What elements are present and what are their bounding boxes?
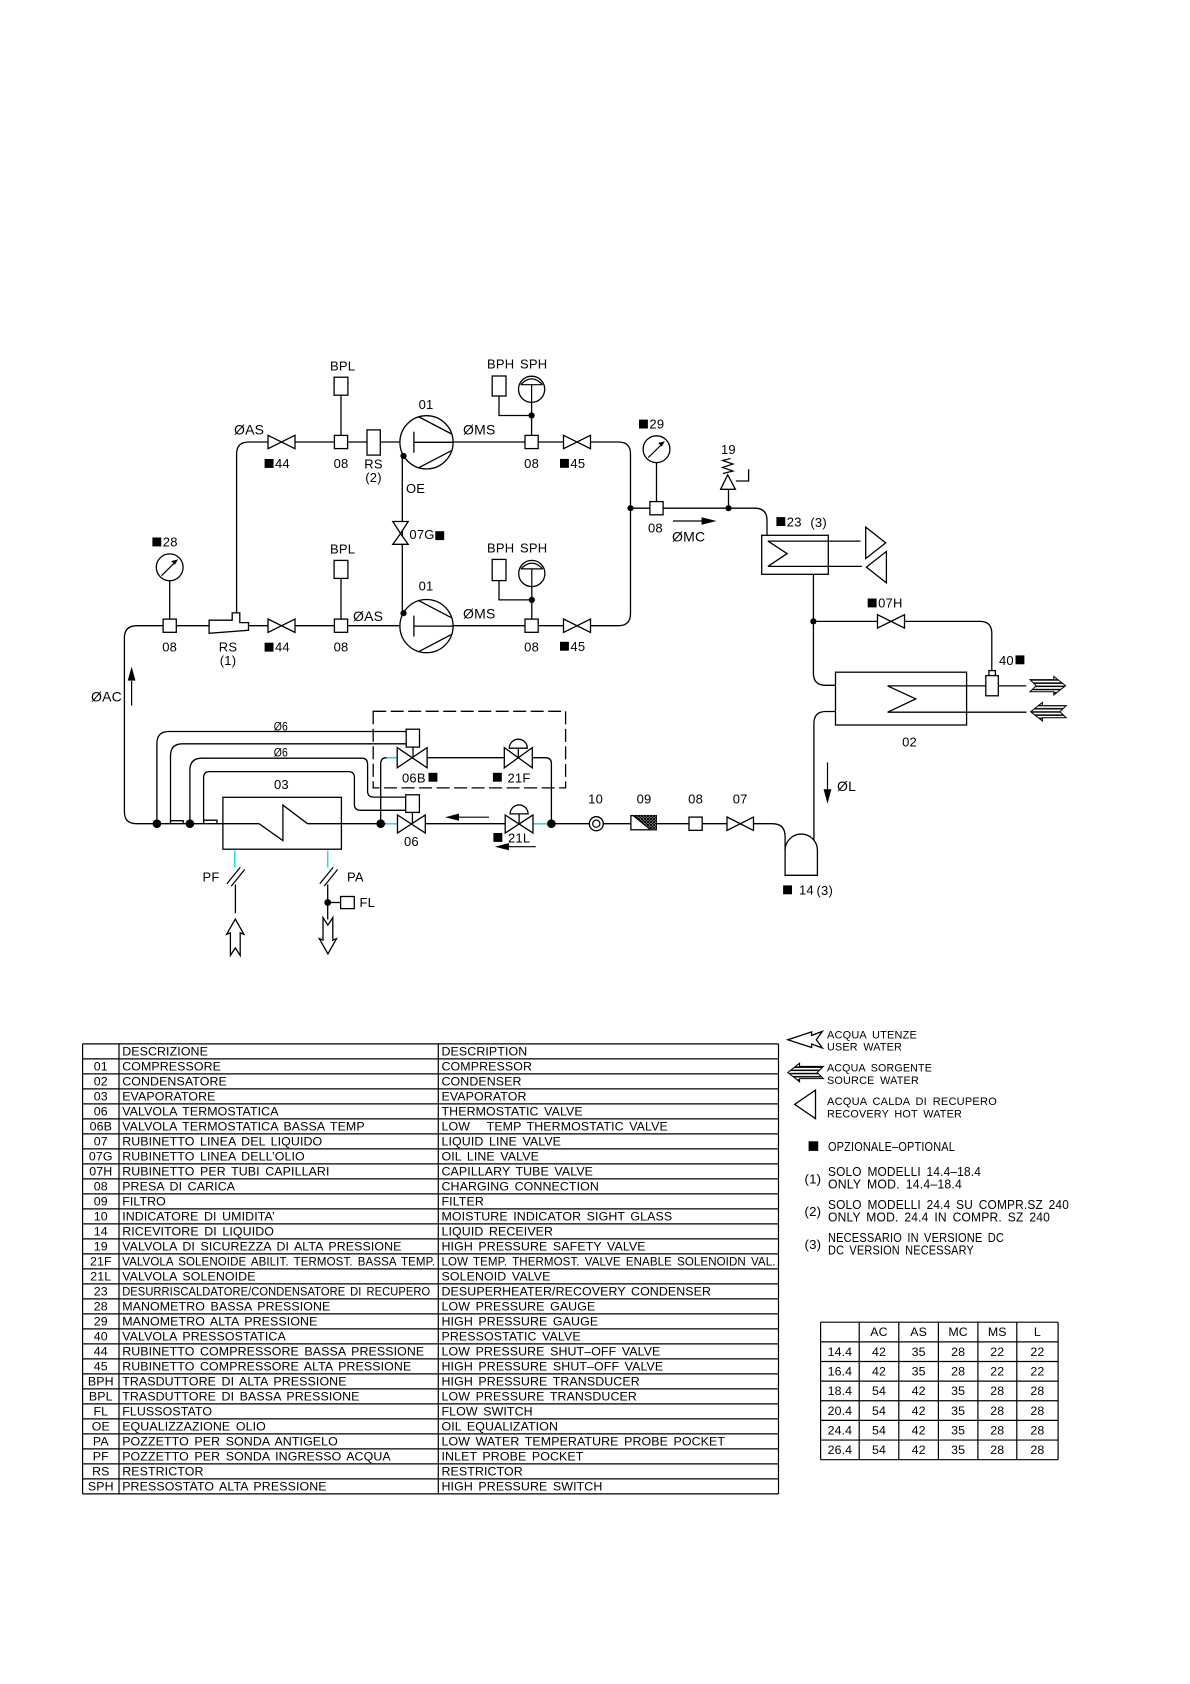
svg-text:09: 09 bbox=[637, 792, 652, 807]
wire to flow switch FL bbox=[328, 902, 341, 904]
svg-text:06B: 06B bbox=[402, 770, 426, 785]
cyan stub right of solenoid 21L bbox=[534, 823, 549, 825]
svg-text:08: 08 bbox=[334, 640, 349, 655]
svg-text:22: 22 bbox=[990, 1345, 1004, 1359]
PA probe pocket slashes bbox=[320, 867, 338, 886]
svg-text:26.4: 26.4 bbox=[828, 1443, 853, 1457]
node PA/FL tee bbox=[324, 899, 331, 906]
svg-text:OPZIONALE–OPTIONAL: OPZIONALE–OPTIONAL bbox=[828, 1139, 955, 1154]
svg-text:INDICATORE DI UMIDITA’: INDICATORE DI UMIDITA’ bbox=[122, 1210, 275, 1224]
cyan PA probe upper stub bbox=[327, 851, 329, 868]
svg-text:45: 45 bbox=[570, 456, 585, 471]
svg-text:CONDENSER: CONDENSER bbox=[442, 1075, 522, 1089]
svg-text:LOW PRESSURE GAUGE: LOW PRESSURE GAUGE bbox=[442, 1300, 596, 1314]
svg-text:44: 44 bbox=[275, 456, 290, 471]
svg-text:ØAS: ØAS bbox=[353, 608, 383, 624]
svg-text:22: 22 bbox=[990, 1365, 1004, 1379]
svg-text:06: 06 bbox=[404, 834, 419, 849]
svg-text:PRESA DI CARICA: PRESA DI CARICA bbox=[122, 1180, 236, 1194]
source water arrow in (hatched left) bbox=[1031, 702, 1067, 721]
svg-text:POZZETTO PER SONDA ANTIGELO: POZZETTO PER SONDA ANTIGELO bbox=[122, 1435, 338, 1449]
svg-text:03: 03 bbox=[274, 777, 289, 792]
svg-text:23: 23 bbox=[94, 1285, 108, 1299]
PA water outlet hollow arrow down bbox=[319, 918, 336, 954]
svg-text:LOW TEMP THERMOSTATIC VALVE: LOW TEMP THERMOSTATIC VALVE bbox=[442, 1120, 668, 1134]
svg-text:28: 28 bbox=[951, 1365, 965, 1379]
svg-text:16.4: 16.4 bbox=[828, 1365, 853, 1379]
wire PF probe pocket line (water in) bbox=[234, 884, 236, 913]
svg-text:BPH: BPH bbox=[487, 357, 514, 372]
svg-text:DC VERSION NECESSARY: DC VERSION NECESSARY bbox=[828, 1242, 974, 1257]
svg-text:OE: OE bbox=[406, 481, 425, 496]
svg-text:28: 28 bbox=[990, 1443, 1004, 1457]
svg-text:LOW WATER TEMPERATURE PROBE PO: LOW WATER TEMPERATURE PROBE POCKET bbox=[442, 1435, 726, 1449]
wire 21L solenoid stem bbox=[518, 814, 520, 824]
svg-text:40: 40 bbox=[999, 653, 1014, 668]
label valve 44 circuit2 bbox=[265, 643, 274, 652]
node safety valve tee bbox=[725, 505, 731, 511]
svg-text:10: 10 bbox=[94, 1210, 108, 1224]
svg-text:CAPILLARY TUBE VALVE: CAPILLARY TUBE VALVE bbox=[442, 1165, 594, 1179]
PF probe pocket slashes bbox=[227, 867, 245, 886]
svg-text:21F: 21F bbox=[508, 770, 531, 785]
cyan PF probe upper stub bbox=[234, 851, 236, 868]
svg-text:FILTER: FILTER bbox=[442, 1195, 484, 1209]
svg-text:DESUPERHEATER/RECOVERY CONDENS: DESUPERHEATER/RECOVERY CONDENSER bbox=[442, 1285, 712, 1299]
svg-text:29: 29 bbox=[649, 417, 664, 432]
svg-text:28: 28 bbox=[990, 1423, 1004, 1437]
svg-text:COMPRESSORE: COMPRESSORE bbox=[122, 1060, 221, 1074]
svg-text:MOISTURE INDICATOR SIGHT GLASS: MOISTURE INDICATOR SIGHT GLASS bbox=[442, 1210, 673, 1224]
svg-text:HIGH PRESSURE TRANSDUCER: HIGH PRESSURE TRANSDUCER bbox=[442, 1375, 640, 1389]
wire PA probe line with flow switch tap bbox=[327, 884, 329, 919]
svg-text:02: 02 bbox=[902, 735, 917, 750]
moisture indicator sight glass 10 bbox=[589, 817, 603, 831]
svg-text:14: 14 bbox=[94, 1225, 108, 1239]
charging connection 08 (circuit2 suction line) bbox=[163, 619, 176, 632]
flow arrow liquid below 21L bbox=[508, 846, 536, 848]
svg-text:22: 22 bbox=[1030, 1365, 1044, 1379]
svg-text:HIGH PRESSURE SWITCH: HIGH PRESSURE SWITCH bbox=[442, 1480, 603, 1494]
svg-text:(3): (3) bbox=[805, 1237, 822, 1252]
svg-text:54: 54 bbox=[872, 1443, 886, 1457]
svg-text:08: 08 bbox=[648, 521, 663, 536]
legend source water arrow (hatched left) bbox=[788, 1063, 824, 1082]
svg-text:LIQUID LINE VALVE: LIQUID LINE VALVE bbox=[442, 1135, 562, 1149]
svg-text:07H: 07H bbox=[878, 596, 902, 611]
wire BPL1 stem bbox=[340, 395, 342, 436]
svg-text:OE: OE bbox=[92, 1420, 110, 1434]
shut-off valve 44 circuit 2 bbox=[268, 619, 295, 632]
svg-text:01: 01 bbox=[94, 1060, 108, 1074]
svg-text:PA: PA bbox=[347, 870, 364, 885]
wire liquid line from evaporator to receiver bbox=[308, 824, 786, 851]
svg-text:35: 35 bbox=[951, 1423, 965, 1437]
wire bulb line of valve 06B (riser1) bbox=[157, 732, 406, 824]
svg-text:54: 54 bbox=[872, 1404, 886, 1418]
svg-text:(1): (1) bbox=[220, 653, 237, 668]
svg-text:ONLY MOD. 24.4 IN COMPR. SZ 24: ONLY MOD. 24.4 IN COMPR. SZ 240 bbox=[828, 1209, 1050, 1224]
svg-text:EVAPORATOR: EVAPORATOR bbox=[442, 1090, 527, 1104]
legend user water arrow (hollow left) bbox=[788, 1031, 823, 1048]
svg-text:Ø6: Ø6 bbox=[274, 746, 288, 760]
solenoid valve 21F bowtie bbox=[504, 748, 532, 768]
svg-text:42: 42 bbox=[912, 1404, 926, 1418]
svg-text:DESCRIPTION: DESCRIPTION bbox=[442, 1045, 528, 1059]
svg-text:HIGH PRESSURE SAFETY VALVE: HIGH PRESSURE SAFETY VALVE bbox=[442, 1240, 646, 1254]
svg-text:HIGH PRESSURE GAUGE: HIGH PRESSURE GAUGE bbox=[442, 1315, 599, 1329]
svg-text:BPL: BPL bbox=[330, 359, 355, 374]
svg-text:RICEVITORE DI LIQUIDO: RICEVITORE DI LIQUIDO bbox=[122, 1225, 274, 1239]
svg-text:POZZETTO PER SONDA INGRESSO AC: POZZETTO PER SONDA INGRESSO ACQUA bbox=[122, 1450, 391, 1464]
svg-text:40: 40 bbox=[94, 1330, 108, 1344]
source water arrow out (hatched right) bbox=[1030, 676, 1066, 695]
svg-text:21L: 21L bbox=[90, 1270, 111, 1284]
svg-text:44: 44 bbox=[94, 1345, 108, 1359]
flow arrow ØL down bbox=[827, 762, 829, 789]
svg-text:(3): (3) bbox=[810, 515, 827, 530]
wire discharge ØMC to desuperheater bbox=[631, 508, 768, 535]
wire condenser outlet down to liquid receiver bbox=[814, 712, 836, 852]
svg-text:07G: 07G bbox=[89, 1150, 113, 1164]
svg-text:CONDENSATORE: CONDENSATORE bbox=[122, 1075, 227, 1089]
shut-off valve 44 circuit 1 bbox=[268, 435, 295, 448]
svg-text:ØL: ØL bbox=[837, 778, 856, 794]
svg-text:28: 28 bbox=[1030, 1443, 1044, 1457]
svg-text:ØAC: ØAC bbox=[91, 689, 122, 705]
svg-text:01: 01 bbox=[419, 579, 434, 594]
svg-text:09: 09 bbox=[94, 1195, 108, 1209]
svg-text:INLET PROBE POCKET: INLET PROBE POCKET bbox=[442, 1450, 584, 1464]
high pressure safety valve 19 bbox=[721, 475, 736, 490]
wire oil equalization OE between compressors bbox=[401, 456, 403, 614]
thermostatic valve 06B bowtie bbox=[397, 748, 427, 768]
svg-text:PRESSOSTATO ALTA PRESSIONE: PRESSOSTATO ALTA PRESSIONE bbox=[122, 1480, 326, 1494]
svg-text:10: 10 bbox=[588, 792, 603, 807]
node SPH/BPH junction c1 bbox=[529, 412, 535, 418]
low pressure transducer BPL circuit 2 bbox=[334, 560, 348, 578]
svg-text:VALVOLA SOLENOIDE ABILIT. TERM: VALVOLA SOLENOIDE ABILIT. TERMOST. BASSA… bbox=[122, 1255, 435, 1269]
svg-text:45: 45 bbox=[570, 639, 585, 654]
svg-text:RUBINETTO LINEA DEL LIQUIDO: RUBINETTO LINEA DEL LIQUIDO bbox=[122, 1135, 322, 1149]
svg-text:LOW PRESSURE TRANSDUCER: LOW PRESSURE TRANSDUCER bbox=[442, 1390, 637, 1404]
svg-text:ØMS: ØMS bbox=[463, 422, 496, 438]
dashed box: optional low-temp thermostatic kit (06B+21F) bbox=[373, 711, 565, 788]
pressostatic valve 40 bbox=[989, 671, 996, 676]
node OE tap compressor2 bbox=[400, 610, 406, 616]
svg-text:THERMOSTATIC VALVE: THERMOSTATIC VALVE bbox=[442, 1105, 583, 1119]
solenoid valve 21L bowtie bbox=[505, 815, 533, 833]
node evap suction bulb1 bbox=[153, 819, 162, 828]
svg-text:54: 54 bbox=[872, 1384, 886, 1398]
svg-text:SOLENOID VALVE: SOLENOID VALVE bbox=[442, 1270, 551, 1284]
svg-text:23: 23 bbox=[787, 514, 802, 529]
svg-text:USER WATER: USER WATER bbox=[827, 1042, 902, 1054]
svg-text:42: 42 bbox=[912, 1384, 926, 1398]
charging connection 08 (circuit2 suction at compressor) bbox=[334, 619, 347, 632]
svg-text:PF: PF bbox=[93, 1450, 109, 1464]
label valve 45 circuit2 bbox=[560, 642, 569, 651]
svg-text:08: 08 bbox=[524, 456, 539, 471]
evaporator internal coil zigzag bbox=[259, 805, 307, 841]
svg-text:RS: RS bbox=[92, 1465, 109, 1479]
label 07H bbox=[868, 599, 877, 608]
svg-text:BPH: BPH bbox=[487, 541, 514, 556]
wire bulb line of valve 06 (riser3 with jog) bbox=[190, 758, 406, 824]
high pressure switch SPH circuit 1 bbox=[519, 376, 545, 402]
svg-text:ØMS: ØMS bbox=[463, 606, 496, 622]
legend recovery hot water triangle bbox=[795, 1090, 816, 1119]
svg-text:RUBINETTO COMPRESSORE ALTA PRE: RUBINETTO COMPRESSORE ALTA PRESSIONE bbox=[122, 1360, 411, 1374]
shut-off valve 45 circuit 2 bbox=[564, 619, 591, 632]
svg-text:LIQUID RECEIVER: LIQUID RECEIVER bbox=[442, 1225, 554, 1239]
charging connection 08 (circuit1 discharge) bbox=[525, 435, 538, 448]
svg-text:VALVOLA SOLENOIDE: VALVOLA SOLENOIDE bbox=[122, 1270, 255, 1284]
svg-text:BPL: BPL bbox=[330, 542, 355, 557]
wire condenser top pipe to user bbox=[888, 685, 1027, 687]
svg-text:(1): (1) bbox=[805, 1171, 822, 1186]
label 23 (3) bbox=[776, 517, 785, 526]
liquid line valve 07 bbox=[727, 817, 754, 830]
svg-text:FL: FL bbox=[93, 1405, 108, 1419]
svg-text:42: 42 bbox=[912, 1423, 926, 1437]
svg-text:HIGH PRESSURE SHUT–OFF VALVE: HIGH PRESSURE SHUT–OFF VALVE bbox=[442, 1360, 664, 1374]
svg-text:02: 02 bbox=[94, 1075, 108, 1089]
wire desuperheater bottom pipe bbox=[768, 565, 862, 567]
svg-text:06B: 06B bbox=[90, 1120, 112, 1134]
svg-text:BPL: BPL bbox=[89, 1390, 113, 1404]
svg-text:14: 14 bbox=[799, 883, 814, 898]
svg-text:SPH: SPH bbox=[520, 357, 547, 372]
svg-text:ACQUA CALDA DI RECUPERO: ACQUA CALDA DI RECUPERO bbox=[827, 1096, 997, 1108]
svg-text:MANOMETRO ALTA PRESSIONE: MANOMETRO ALTA PRESSIONE bbox=[122, 1315, 317, 1329]
svg-text:06: 06 bbox=[94, 1105, 108, 1119]
svg-text:03: 03 bbox=[94, 1090, 108, 1104]
svg-text:08: 08 bbox=[334, 456, 349, 471]
svg-text:LOW PRESSURE SHUT–OFF VALVE: LOW PRESSURE SHUT–OFF VALVE bbox=[442, 1345, 661, 1359]
svg-text:ØAS: ØAS bbox=[234, 422, 264, 438]
wire 06 bulb stem bbox=[411, 812, 413, 824]
wire valve 06B to solenoid 21F bbox=[427, 757, 504, 759]
oil line valve 07G (vertical) bbox=[393, 522, 408, 534]
svg-text:RESTRICTOR: RESTRICTOR bbox=[442, 1465, 523, 1479]
svg-text:35: 35 bbox=[951, 1404, 965, 1418]
high pressure transducer BPH circuit 1 bbox=[492, 376, 506, 396]
wire safety valve 19 stem bbox=[728, 489, 730, 506]
charging connection 08 (liquid line) bbox=[689, 817, 702, 830]
svg-text:35: 35 bbox=[912, 1365, 926, 1379]
svg-text:28: 28 bbox=[163, 535, 178, 550]
low pressure gauge 28 bbox=[156, 554, 183, 581]
svg-text:19: 19 bbox=[94, 1240, 108, 1254]
thermostatic valve 06 bulb element bbox=[406, 795, 420, 813]
label valve 45 circuit1 bbox=[560, 459, 569, 468]
label gauge 29 bbox=[639, 420, 648, 429]
svg-text:44: 44 bbox=[275, 640, 290, 655]
cyan equalizer stub at valve 06 bbox=[386, 823, 398, 825]
svg-text:Ø6: Ø6 bbox=[274, 720, 288, 734]
svg-text:22: 22 bbox=[1030, 1345, 1044, 1359]
svg-text:RUBINETTO COMPRESSORE BASSA PR: RUBINETTO COMPRESSORE BASSA PRESSIONE bbox=[122, 1345, 424, 1359]
evaporator 03 shell bbox=[223, 797, 342, 849]
svg-text:SPH: SPH bbox=[88, 1480, 114, 1494]
compressor 01 circuit 1 bbox=[400, 416, 453, 469]
desuperheater / recovery condenser 23 shell bbox=[762, 535, 829, 574]
svg-text:14.4: 14.4 bbox=[828, 1345, 853, 1359]
node discharge header bbox=[627, 505, 633, 511]
svg-text:VALVOLA TERMOSTATICA: VALVOLA TERMOSTATICA bbox=[122, 1105, 279, 1119]
compressor 01 circuit 2 bbox=[400, 600, 453, 653]
svg-text:EQUALIZZAZIONE OLIO: EQUALIZZAZIONE OLIO bbox=[122, 1420, 266, 1434]
svg-text:20.4: 20.4 bbox=[828, 1404, 853, 1418]
svg-text:AC: AC bbox=[870, 1325, 887, 1339]
label 14 (3) bbox=[783, 885, 792, 894]
svg-text:RUBINETTO PER TUBI CAPILLARI: RUBINETTO PER TUBI CAPILLARI bbox=[122, 1165, 329, 1179]
legend table grid bbox=[83, 1044, 779, 1494]
svg-text:DESURRISCALDATORE/CONDENSATORE: DESURRISCALDATORE/CONDENSATORE DI RECUPE… bbox=[122, 1285, 430, 1299]
svg-text:L: L bbox=[1034, 1325, 1041, 1339]
svg-text:28: 28 bbox=[990, 1384, 1004, 1398]
svg-text:28: 28 bbox=[951, 1345, 965, 1359]
svg-text:EVAPORATORE: EVAPORATORE bbox=[122, 1090, 215, 1104]
svg-text:RESTRICTOR: RESTRICTOR bbox=[122, 1465, 203, 1479]
svg-text:42: 42 bbox=[872, 1345, 886, 1359]
svg-text:45: 45 bbox=[94, 1360, 108, 1374]
label 21F bbox=[493, 773, 502, 782]
water recovery triangle in (left) bbox=[866, 551, 886, 583]
svg-text:42: 42 bbox=[872, 1365, 886, 1379]
svg-text:VALVOLA TERMOSTATICA BASSA TEM: VALVOLA TERMOSTATICA BASSA TEMP bbox=[122, 1120, 365, 1134]
wire SPH2 stem to charging port bbox=[531, 569, 533, 620]
filter 09 bbox=[631, 816, 656, 830]
svg-text:08: 08 bbox=[94, 1180, 108, 1194]
restrictor RS (1) tee bbox=[209, 613, 248, 633]
svg-text:FLOW SWITCH: FLOW SWITCH bbox=[442, 1405, 533, 1419]
capacity table grid bbox=[821, 1322, 1059, 1459]
condenser 02 shell bbox=[836, 672, 967, 725]
desuperheater coil chevron bbox=[768, 541, 787, 566]
svg-text:28: 28 bbox=[1030, 1423, 1044, 1437]
wire 21F solenoid stem bbox=[517, 748, 519, 758]
node 07H branch tee bbox=[810, 618, 816, 624]
label 21L bbox=[493, 833, 502, 842]
svg-text:35: 35 bbox=[951, 1443, 965, 1457]
svg-text:ACQUA SORGENTE: ACQUA SORGENTE bbox=[827, 1062, 932, 1074]
node TXV outlet join bbox=[376, 819, 385, 828]
wire desuperheater top pipe bbox=[768, 540, 861, 542]
svg-text:54: 54 bbox=[872, 1423, 886, 1437]
svg-text:SPH: SPH bbox=[520, 541, 547, 556]
svg-text:PRESSOSTATIC VALVE: PRESSOSTATIC VALVE bbox=[442, 1330, 581, 1344]
svg-text:RUBINETTO LINEA DELL’OLIO: RUBINETTO LINEA DELL’OLIO bbox=[122, 1150, 305, 1164]
high pressure gauge 29 bbox=[643, 436, 670, 463]
svg-text:28: 28 bbox=[1030, 1404, 1044, 1418]
svg-text:(2): (2) bbox=[365, 470, 382, 485]
svg-text:CHARGING CONNECTION: CHARGING CONNECTION bbox=[442, 1180, 599, 1194]
svg-text:08: 08 bbox=[688, 792, 703, 807]
PF water inlet hollow arrow up bbox=[227, 919, 244, 955]
wire valve 06B outlet down to main line bbox=[381, 758, 398, 824]
svg-text:MS: MS bbox=[988, 1325, 1007, 1339]
flow arrow ØMC right bbox=[673, 520, 702, 522]
label gauge 28 bbox=[152, 538, 161, 547]
restrictor RS (2) bbox=[367, 430, 380, 455]
wire 06B bulb stem bbox=[412, 747, 414, 758]
charging connection 08 (circuit1 suction) bbox=[334, 435, 347, 448]
svg-text:FL: FL bbox=[360, 895, 376, 910]
svg-text:PF: PF bbox=[203, 870, 220, 885]
liquid receiver 14 bbox=[785, 834, 817, 875]
node OE tap compressor1 bbox=[400, 453, 406, 459]
svg-text:OIL EQUALIZATION: OIL EQUALIZATION bbox=[442, 1420, 559, 1434]
water recovery triangle out (right) bbox=[866, 527, 886, 559]
capillary tube valve 07H bbox=[878, 615, 905, 628]
svg-text:21L: 21L bbox=[508, 831, 530, 846]
svg-text:07: 07 bbox=[94, 1135, 108, 1149]
svg-text:PA: PA bbox=[93, 1435, 109, 1449]
wire equalizer line of valve 06 (riser4 with foot) bbox=[204, 772, 406, 824]
thermostatic valve 06B bulb element bbox=[406, 729, 419, 747]
svg-text:28: 28 bbox=[1030, 1384, 1044, 1398]
high pressure transducer BPH circuit 2 bbox=[492, 559, 506, 580]
svg-text:07H: 07H bbox=[89, 1165, 112, 1179]
wire solenoid 21F down to liquid line bbox=[532, 758, 551, 824]
svg-text:ØMC: ØMC bbox=[672, 529, 705, 545]
svg-text:BPH: BPH bbox=[88, 1375, 114, 1389]
svg-text:21F: 21F bbox=[90, 1255, 112, 1269]
wire SPH1 stem to charging port bbox=[531, 385, 533, 436]
charging connection 08 (circuit2 discharge) bbox=[525, 619, 538, 632]
svg-text:RECOVERY HOT WATER: RECOVERY HOT WATER bbox=[827, 1108, 962, 1120]
node SPH/BPH junction c2 bbox=[529, 597, 535, 603]
svg-text:(2): (2) bbox=[805, 1204, 822, 1219]
high pressure switch SPH circuit 2 bbox=[519, 560, 545, 586]
svg-text:ACQUA UTENZE: ACQUA UTENZE bbox=[827, 1029, 917, 1041]
svg-text:29: 29 bbox=[94, 1315, 108, 1329]
wire desuperheater down to condenser inlet bbox=[813, 574, 835, 685]
svg-text:TRASDUTTORE DI ALTA PRESSIONE: TRASDUTTORE DI ALTA PRESSIONE bbox=[122, 1375, 346, 1389]
svg-text:LOW TEMP. THERMOST. VALVE ENAB: LOW TEMP. THERMOST. VALVE ENABLE SOLENOI… bbox=[442, 1255, 776, 1269]
svg-text:24.4: 24.4 bbox=[828, 1423, 853, 1437]
svg-text:AS: AS bbox=[910, 1325, 927, 1339]
wire equalizer line of valve 06B (riser2 with foot) bbox=[171, 744, 407, 824]
svg-text:08: 08 bbox=[162, 640, 177, 655]
wire BPL2 stem bbox=[340, 578, 342, 619]
svg-text:DESCRIZIONE: DESCRIZIONE bbox=[122, 1045, 208, 1059]
svg-text:VALVOLA DI SICUREZZA DI ALTA P: VALVOLA DI SICUREZZA DI ALTA PRESSIONE bbox=[122, 1240, 401, 1254]
flow switch FL box bbox=[341, 897, 355, 909]
wire gauge 29 stem bbox=[656, 463, 658, 502]
svg-text:FLUSSOSTATO: FLUSSOSTATO bbox=[122, 1405, 212, 1419]
svg-text:18.4: 18.4 bbox=[828, 1384, 853, 1398]
svg-text:35: 35 bbox=[951, 1384, 965, 1398]
low pressure transducer BPL circuit 1 bbox=[334, 377, 348, 395]
svg-text:FILTRO: FILTRO bbox=[122, 1195, 166, 1209]
wire BPH1 to junction bbox=[499, 396, 532, 416]
wire capillary valve 07H branch to pressostatic valve 40 bbox=[813, 621, 991, 670]
cyan equalizer stub at valve 06B bbox=[387, 757, 398, 759]
node liquid line tee bbox=[547, 819, 556, 828]
svg-text:TRASDUTTORE DI BASSA PRESSIONE: TRASDUTTORE DI BASSA PRESSIONE bbox=[122, 1390, 359, 1404]
svg-text:MC: MC bbox=[948, 1325, 967, 1339]
svg-text:VALVOLA PRESSOSTATICA: VALVOLA PRESSOSTATICA bbox=[122, 1330, 286, 1344]
label valve 44 circuit1 bbox=[265, 459, 274, 468]
flow arrow ØAC up bbox=[131, 681, 133, 706]
thermostatic valve 06 bowtie bbox=[398, 815, 426, 833]
svg-text:SOURCE WATER: SOURCE WATER bbox=[827, 1075, 919, 1087]
svg-text:OIL LINE VALVE: OIL LINE VALVE bbox=[442, 1150, 539, 1164]
solenoid valve 21L cap bbox=[510, 805, 528, 814]
